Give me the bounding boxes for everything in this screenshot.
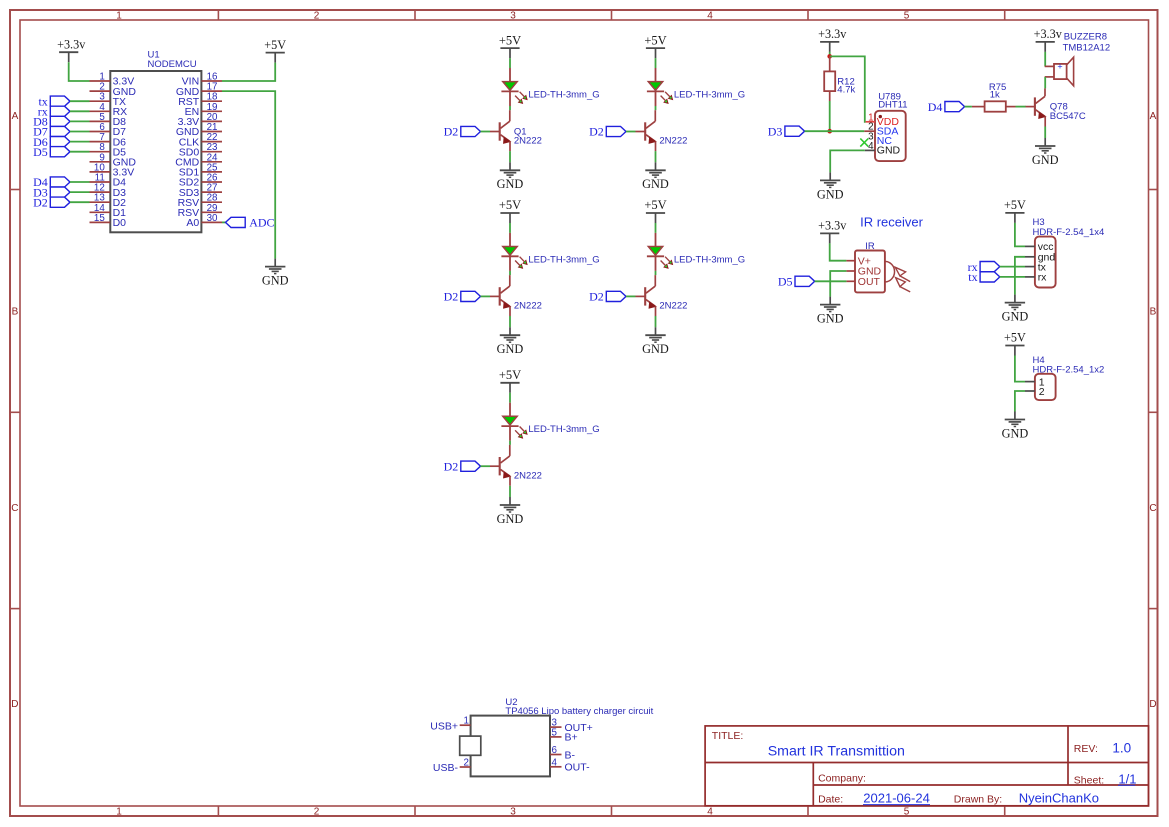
svg-text:2N222: 2N222	[659, 136, 687, 147]
wire D2 to base (2)	[626, 131, 636, 133]
wire +5V to LED 3	[509, 223, 511, 233]
svg-text:+3.3v: +3.3v	[57, 37, 86, 51]
svg-text:+: +	[1057, 62, 1062, 72]
svg-text:+5V: +5V	[499, 368, 521, 382]
svg-text:+3.3v: +3.3v	[1034, 27, 1063, 41]
buzzer BUZZER8 symbol	[1045, 57, 1074, 86]
U2 pin names	[430, 720, 593, 774]
svg-text:5: 5	[552, 727, 558, 738]
svg-text:NODEMCU: NODEMCU	[148, 59, 197, 70]
frame column ticks bottom	[218, 806, 1004, 816]
svg-text:+5V: +5V	[644, 198, 666, 212]
svg-text:D2: D2	[33, 195, 48, 209]
net flag D2 (LED block 3)	[444, 290, 481, 304]
svg-text:4: 4	[552, 757, 558, 768]
frame row letters right	[1149, 111, 1156, 710]
wire R12 to junction D3	[829, 101, 831, 131]
svg-text:Smart IR Transmittion: Smart IR Transmittion	[768, 743, 905, 759]
wire LED to transistor collector (5)	[509, 441, 511, 445]
U1 right pin numbers 16-30	[207, 72, 218, 224]
net flag D2 (LED block 1)	[444, 125, 481, 139]
ground symbol (IR GND)	[817, 297, 844, 326]
svg-text:D2: D2	[444, 125, 459, 139]
svg-text:DHT11: DHT11	[878, 99, 907, 110]
U1 left pin stubs (pins 1-15)	[90, 81, 111, 222]
svg-text:Sheet:: Sheet:	[1074, 774, 1104, 786]
frame row ticks right	[1149, 190, 1158, 609]
wire IR GND to ground	[830, 271, 846, 297]
LED D LED-TH-3mm_G (5)	[501, 403, 527, 441]
wire junction to U789 pin 1 VDD	[830, 56, 866, 121]
module IR body	[846, 251, 894, 293]
wire Q78 emitter to GND	[1044, 127, 1046, 139]
wire +5V to LED 2	[655, 58, 657, 68]
svg-text:D5: D5	[778, 275, 793, 289]
ground symbol (H3 GND)	[1002, 295, 1029, 324]
net flag D5 to IR OUT	[778, 275, 815, 289]
svg-text:HDR-F-2.54_1x4: HDR-F-2.54_1x4	[1033, 227, 1105, 238]
U1 left pin names	[113, 76, 137, 229]
svg-text:Date:: Date:	[818, 793, 843, 805]
no-connect X on U789 pin 3	[860, 139, 868, 147]
H3 pin names	[1038, 241, 1056, 284]
svg-text:+5V: +5V	[644, 33, 666, 47]
frame column numbers top	[116, 11, 910, 22]
svg-text:rx: rx	[1038, 272, 1047, 284]
title block frame	[705, 726, 1148, 806]
junction node D3/R12/SDA	[827, 129, 832, 134]
wire D2 to base (3)	[481, 295, 491, 297]
wire D8 to U1 pin 5	[70, 120, 90, 122]
svg-text:TITLE:: TITLE:	[712, 730, 744, 742]
net flag ADC at U1 pin 30	[226, 216, 275, 230]
wire D2 to base (4)	[626, 295, 636, 297]
svg-text:LED-TH-3mm_G: LED-TH-3mm_G	[528, 90, 599, 101]
svg-text:GND: GND	[642, 177, 669, 191]
wire +3.3v to IR V+	[830, 243, 847, 260]
svg-text:GND: GND	[1032, 153, 1059, 167]
svg-text:TMB12A12: TMB12A12	[1063, 42, 1111, 53]
U789 pin names	[877, 116, 901, 157]
svg-text:HDR-F-2.54_1x2: HDR-F-2.54_1x2	[1033, 364, 1105, 375]
svg-text:2N222: 2N222	[514, 301, 542, 312]
U789 pin numbers	[868, 112, 874, 152]
wire LED to transistor collector (1)	[509, 106, 511, 110]
wire U789 pin 4 GND to ground	[830, 150, 865, 172]
svg-text:4: 4	[868, 141, 874, 152]
transistor Q1 (1)	[490, 110, 510, 151]
frame row letters left	[11, 111, 18, 710]
ground symbol (H4 GND)	[1002, 412, 1029, 441]
frame row ticks left	[10, 190, 20, 609]
sensor U789 DHT11 body	[864, 111, 905, 161]
svg-text:1: 1	[464, 716, 469, 727]
wire LED to transistor collector (2)	[655, 106, 657, 110]
U1 left pin numbers 1-15	[94, 72, 105, 224]
wire +3.3v to buzzer pin +	[1044, 52, 1046, 67]
svg-text:LED-TH-3mm_G: LED-TH-3mm_G	[528, 424, 599, 435]
wire +5V to H3 vcc	[1015, 223, 1025, 247]
svg-text:+5V: +5V	[1004, 198, 1026, 212]
IR incoming light arrow 2	[896, 278, 911, 292]
transistor Q78 BC547C	[1025, 88, 1045, 126]
net flag D5 at U1 pin 8	[33, 145, 70, 159]
svg-text:5: 5	[904, 807, 910, 818]
svg-text:B-: B-	[565, 749, 576, 761]
svg-text:+5V: +5V	[1004, 331, 1026, 345]
svg-text:D: D	[1149, 699, 1156, 710]
wire D3 to U1 pin 12	[70, 191, 90, 193]
svg-text:1: 1	[116, 11, 122, 22]
LED D LED-TH-3mm_G (2)	[647, 68, 673, 106]
svg-text:1.0: 1.0	[1112, 740, 1131, 755]
wire D2 to U1 pin 13	[70, 201, 90, 203]
ground symbol (LED block 5)	[497, 497, 524, 526]
net flag D7 at U1 pin 6	[33, 125, 70, 139]
svg-text:4.7k: 4.7k	[837, 85, 855, 96]
svg-text:A0: A0	[186, 217, 199, 229]
svg-text:GND: GND	[877, 145, 901, 157]
wire U1 pin 30 A0 to ADC flag	[222, 221, 226, 223]
svg-text:2: 2	[464, 758, 469, 769]
wire tx to U1 pin 3	[70, 100, 90, 102]
wire +5V to LED 1	[509, 58, 511, 68]
svg-text:+5V: +5V	[499, 198, 521, 212]
svg-text:1: 1	[116, 807, 122, 818]
wire emitter to GND (3)	[509, 316, 511, 327]
wire rx to U1 pin 4	[70, 110, 90, 112]
net flag D3 to DHT11 SDA	[768, 124, 805, 138]
svg-text:3: 3	[510, 11, 516, 22]
svg-text:D5: D5	[33, 145, 48, 159]
net flag D4 to R75	[928, 100, 965, 114]
net flag D3 at U1 pin 12	[33, 185, 70, 199]
svg-text:4: 4	[707, 807, 713, 818]
H4 pin numbers	[1039, 376, 1045, 397]
wire +5V to U1 pin 16 VIN	[222, 63, 275, 81]
header H4 HDR-F-2.54_1x2 body	[1025, 374, 1056, 400]
power +5V (LED block 2)	[644, 33, 666, 58]
net flag D8 at U1 pin 5	[33, 115, 70, 129]
sheet value 1/1	[1118, 772, 1136, 787]
IR pin names	[858, 255, 882, 288]
svg-text:GND: GND	[1002, 426, 1029, 440]
wire emitter to GND (5)	[509, 486, 511, 497]
svg-text:5: 5	[904, 11, 910, 22]
svg-text:+3.3v: +3.3v	[818, 27, 847, 41]
svg-text:LED-TH-3mm_G: LED-TH-3mm_G	[528, 254, 599, 265]
wire +5V to H4 pin 1	[1015, 356, 1025, 382]
svg-text:2: 2	[314, 807, 320, 818]
svg-text:C: C	[1149, 503, 1156, 514]
wire D5 to U1 pin 8	[70, 151, 90, 153]
transistor 2N222 (4)	[636, 275, 656, 316]
svg-text:D4: D4	[928, 100, 943, 114]
power symbol +3.3v (buzzer supply)	[1034, 27, 1063, 52]
resistor R12	[824, 56, 835, 101]
svg-text:ADC: ADC	[249, 216, 274, 230]
net flag rx at U1 pin 4	[38, 105, 70, 119]
IC U1 NODEMCU body	[110, 71, 201, 232]
wire H3 gnd to ground	[1015, 257, 1025, 295]
wire tx flag to H3 rx pin	[1000, 276, 1025, 278]
U1 right pin stubs (pins 16-30)	[201, 81, 222, 222]
ground symbol (LED block 1)	[497, 162, 524, 191]
svg-text:30: 30	[207, 213, 218, 224]
wire H4 pin 2 to ground	[1015, 391, 1025, 412]
wire D7 to U1 pin 6	[70, 131, 90, 133]
wire D3 to U789 pin 2 SDA	[805, 130, 865, 132]
ground symbol (LED block 4)	[642, 327, 669, 356]
module U2 TP4056 body	[460, 716, 562, 777]
wire D5 to IR OUT	[815, 280, 847, 282]
svg-text:USB+: USB+	[430, 720, 458, 732]
power symbol +5V (U1 VIN supply)	[264, 38, 286, 63]
net flag D2 at U1 pin 13	[33, 195, 70, 209]
svg-text:LED-TH-3mm_G: LED-TH-3mm_G	[674, 254, 745, 265]
svg-text:D2: D2	[589, 125, 604, 139]
net flag D2 (LED block 2)	[589, 125, 626, 139]
svg-text:Company:: Company:	[818, 772, 866, 784]
wire emitter to GND (4)	[655, 316, 657, 327]
svg-text:Drawn By:: Drawn By:	[954, 793, 1002, 805]
svg-text:BC547C: BC547C	[1050, 111, 1086, 122]
wire +5V to LED 4	[655, 223, 657, 233]
svg-text:IR receiver: IR receiver	[860, 215, 924, 230]
svg-text:D2: D2	[589, 290, 604, 304]
wire D4 to U1 pin 11	[70, 181, 90, 183]
svg-text:2: 2	[1039, 386, 1045, 398]
wire D2 to base (1)	[481, 131, 491, 133]
svg-text:2: 2	[314, 11, 320, 22]
svg-text:D2: D2	[444, 459, 459, 473]
power symbol +3.3v (IR supply)	[818, 219, 847, 244]
U2 pin numbers	[464, 716, 558, 769]
svg-text:1k: 1k	[990, 90, 1000, 101]
svg-text:LED-TH-3mm_G: LED-TH-3mm_G	[674, 90, 745, 101]
svg-text:IR: IR	[865, 241, 875, 252]
net flag D2 (LED block 5)	[444, 459, 481, 473]
transistor 2N222 (5)	[490, 445, 510, 486]
IR incoming light arrow 1	[895, 267, 910, 281]
power symbol +5V (H4 supply)	[1004, 331, 1026, 356]
transistor 2N222 (3)	[490, 275, 510, 316]
svg-text:15: 15	[94, 213, 105, 224]
wire R75 to Q78 base	[1016, 106, 1026, 108]
svg-text:+5V: +5V	[264, 38, 286, 52]
net flag rx to H3 tx pin	[968, 260, 1000, 274]
wire D4 to R75	[965, 106, 972, 108]
wire buzzer to Q78 collector	[1044, 77, 1046, 89]
wire D2 to base (5)	[481, 465, 491, 467]
power symbol +3.3v (U1 supply)	[57, 37, 86, 62]
svg-text:GND: GND	[1002, 310, 1029, 324]
svg-text:+5V: +5V	[499, 33, 521, 47]
LED D LED-TH-3mm_G (3)	[501, 233, 527, 271]
wire +3.3v to junction	[829, 52, 831, 57]
frame column ticks top	[218, 10, 1004, 20]
power +5V (LED block 3)	[499, 198, 521, 223]
wire emitter to GND (1)	[509, 151, 511, 162]
svg-text:D: D	[11, 699, 18, 710]
net flag tx to H3 rx pin	[968, 270, 1000, 284]
svg-text:GND: GND	[817, 187, 844, 201]
svg-text:6: 6	[552, 745, 558, 756]
wire +5V to LED 5	[509, 393, 511, 403]
svg-text:GND: GND	[497, 342, 524, 356]
wire +3.3v to U1 pin 1	[69, 62, 90, 81]
svg-text:GND: GND	[817, 312, 844, 326]
ground symbol (LED block 2)	[642, 162, 669, 191]
LED D LED-TH-3mm_G (1)	[501, 68, 527, 106]
transistor 2N222 (2)	[636, 110, 656, 151]
LED D LED-TH-3mm_G (4)	[647, 233, 673, 271]
power +5V (LED block 5)	[499, 368, 521, 393]
date value 2021-06-24	[863, 791, 930, 806]
svg-text:2021-06-24: 2021-06-24	[863, 791, 930, 806]
resistor R75	[972, 101, 1016, 111]
net flag D6 at U1 pin 7	[33, 135, 70, 149]
power symbol +3.3v (DHT11 supply)	[818, 27, 847, 52]
ground symbol (DHT11 GND)	[817, 172, 844, 201]
svg-text:C: C	[11, 503, 18, 514]
ground symbol (LED block 3)	[497, 327, 524, 356]
svg-text:GND: GND	[262, 274, 289, 288]
svg-text:OUT: OUT	[858, 276, 881, 288]
wire D6 to U1 pin 7	[70, 141, 90, 143]
net flag D2 (LED block 4)	[589, 290, 626, 304]
net flag tx at U1 pin 3	[38, 94, 70, 108]
svg-text:D0: D0	[113, 217, 127, 229]
junction node +3.3v/R12/VDD	[827, 54, 832, 59]
svg-text:1/1: 1/1	[1118, 772, 1136, 787]
svg-text:BUZZER8: BUZZER8	[1064, 32, 1107, 43]
svg-text:A: A	[1150, 111, 1157, 122]
svg-text:B: B	[1150, 307, 1157, 318]
svg-text:GND: GND	[497, 177, 524, 191]
svg-text:3: 3	[510, 807, 516, 818]
ground symbol (Q78 GND)	[1032, 138, 1059, 167]
svg-text:B: B	[12, 307, 19, 318]
svg-text:tx: tx	[968, 270, 977, 284]
wire emitter to GND (2)	[655, 151, 657, 162]
svg-text:USB-: USB-	[433, 762, 459, 774]
wire U1 pin 17 GND to ground	[222, 91, 275, 259]
wire LED to transistor collector (3)	[509, 271, 511, 275]
svg-text:GND: GND	[642, 342, 669, 356]
svg-text:+3.3v: +3.3v	[818, 219, 847, 233]
svg-text:2N222: 2N222	[514, 136, 542, 147]
wire LED to transistor collector (4)	[655, 271, 657, 275]
net flag D4 at U1 pin 11	[33, 175, 70, 189]
svg-text:GND: GND	[497, 512, 524, 526]
svg-text:D2: D2	[444, 290, 459, 304]
svg-text:2N222: 2N222	[514, 470, 542, 481]
power symbol +5V (H3 supply)	[1004, 198, 1026, 223]
svg-text:B+: B+	[565, 732, 578, 744]
svg-text:D3: D3	[768, 124, 783, 138]
power +5V (LED block 1)	[499, 33, 521, 58]
svg-text:2N222: 2N222	[659, 301, 687, 312]
wire rx flag to H3 tx pin	[1000, 266, 1025, 268]
U1 right pin names	[175, 76, 200, 229]
svg-text:REV:: REV:	[1074, 743, 1098, 755]
power +5V (LED block 4)	[644, 198, 666, 223]
frame column numbers bottom	[116, 807, 910, 818]
svg-text:OUT-: OUT-	[565, 762, 591, 774]
header H3 HDR-F-2.54_1x4 body	[1025, 237, 1056, 288]
svg-text:4: 4	[707, 11, 713, 22]
svg-text:A: A	[12, 111, 19, 122]
svg-text:NyeinChanKo: NyeinChanKo	[1019, 791, 1099, 806]
ground symbol (U1 GND)	[262, 259, 289, 288]
